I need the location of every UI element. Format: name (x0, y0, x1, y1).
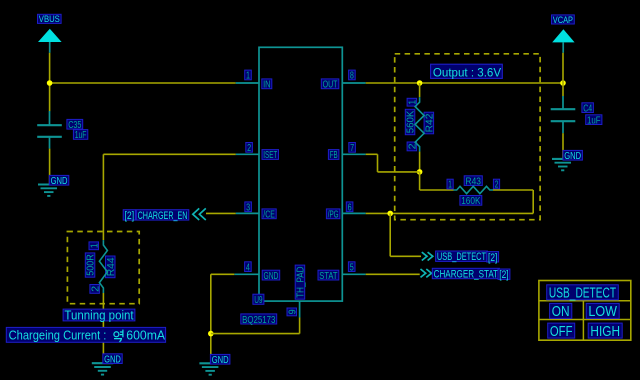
pin 2 stub (236, 153, 259, 155)
svg-text:9: 9 (287, 309, 298, 314)
R44 pin 2 label (vertical) (90, 285, 101, 294)
svg-text:7: 7 (350, 143, 354, 154)
pin 5 stub (342, 273, 365, 275)
ground symbol below R44 (92, 363, 113, 374)
table header USB_DETECT (547, 285, 619, 302)
svg-text:2: 2 (90, 285, 101, 291)
R43 pin 1 label (447, 179, 453, 191)
svg-text:500R: 500R (86, 254, 97, 276)
junction dot GND net (208, 331, 214, 337)
ground label GND (R44) (103, 354, 122, 366)
pin number 2 (246, 143, 253, 155)
net label CHARGER_STAT[2] (432, 268, 510, 281)
svg-text:HIGH: HIGH (590, 324, 620, 340)
table USB_DETECT frame (539, 281, 631, 341)
resistor R43 zigzag (454, 186, 494, 193)
pin number 6 (346, 202, 353, 214)
svg-text:/PG: /PG (328, 210, 339, 221)
svg-text:600mA: 600mA (126, 328, 165, 343)
svg-text:R44: R44 (106, 257, 117, 276)
pin 3 stub (236, 212, 259, 214)
svg-text:[2]: [2] (488, 252, 497, 264)
svg-text:GND: GND (264, 271, 279, 282)
svg-text:560K: 560K (406, 110, 417, 133)
svg-text:Chargeing Current :: Chargeing Current : (9, 328, 107, 343)
ground symbol below C4 (552, 159, 574, 170)
dashed annotation box (tuning) (67, 232, 139, 304)
svg-text:GND: GND (564, 151, 581, 162)
svg-text:8: 8 (350, 71, 354, 82)
label C35 value 1uF (73, 130, 87, 142)
note Output 3.6V (431, 64, 503, 79)
svg-text:[2]: [2] (499, 269, 508, 281)
wire R43 return to /PG (390, 212, 533, 214)
svg-text:1: 1 (89, 243, 100, 248)
wire OUT to VCAP (366, 82, 563, 84)
svg-text:2: 2 (247, 143, 251, 154)
svg-text:Output : 3.6V: Output : 3.6V (433, 65, 501, 79)
pin number 1 (245, 70, 252, 82)
ground label GND (pin4) (210, 354, 230, 366)
R42 value 560K (vertical) (405, 109, 416, 134)
IC U9 BQ25173 body outline (259, 47, 342, 301)
svg-text:IN: IN (263, 80, 270, 91)
note Tunning point (63, 308, 135, 323)
wire R43 down (532, 190, 534, 213)
resistor R42 zigzag (415, 97, 424, 151)
table cell LOW (586, 303, 619, 320)
svg-text:ISET: ISET (263, 150, 277, 161)
part number BQ25173 (241, 314, 277, 326)
power symbol VCAP triangle (552, 29, 574, 53)
wire VCAP vertical (562, 53, 564, 96)
svg-text:OUT: OUT (323, 80, 338, 91)
net label [2] CHARGER_EN (123, 210, 189, 222)
R42 pin 2 label (vertical) (407, 142, 418, 151)
R44 designator (vertical) (106, 256, 117, 278)
wire pin 4 GND horizontal (211, 273, 235, 275)
junction dot VBUS/IN (47, 80, 53, 86)
pin 8 stub (342, 82, 365, 84)
wire CHARGER_EN to pin 3 (206, 212, 236, 214)
label C4 value 1uF (586, 115, 602, 127)
power symbol VBUS label (38, 14, 62, 24)
ground symbol below C35 (38, 185, 60, 196)
pin name OUT (321, 79, 339, 91)
svg-text:USB_DETECT: USB_DETECT (549, 286, 616, 302)
net label USB_DETECT [2] (436, 251, 499, 264)
R43 pin 2 label (493, 179, 499, 191)
svg-text:5: 5 (350, 262, 354, 273)
wire C4 to ground (562, 133, 564, 159)
pin 7 stub (342, 153, 365, 155)
wire TH_PAD vertical (299, 318, 301, 334)
junction dot OUT/C4 (560, 80, 566, 86)
wire pin 4 GND vertical (210, 274, 212, 354)
label C35 (67, 119, 83, 130)
svg-text:3: 3 (246, 202, 250, 213)
svg-text:160K: 160K (461, 196, 481, 207)
svg-text:GND: GND (104, 354, 121, 365)
pin name /CE (262, 209, 276, 221)
designator U9 (253, 294, 264, 306)
svg-text:USB_DETECT: USB_DETECT (437, 251, 486, 263)
R42 pin 1 label (vertical) (407, 98, 418, 106)
svg-text:1: 1 (246, 71, 250, 82)
junction dot OUT/R42 (417, 80, 423, 86)
svg-text:[2]: [2] (125, 210, 135, 222)
svg-text:1uF: 1uF (587, 115, 601, 126)
wire STAT (366, 273, 420, 275)
table cell HIGH (588, 323, 622, 340)
svg-text:STAT: STAT (319, 271, 337, 282)
pin name STAT (318, 270, 339, 282)
pin number 4 (245, 262, 252, 274)
wire FB right (366, 153, 378, 155)
wire ISET horizontal (103, 153, 235, 155)
svg-text:CHARGER_EN: CHARGER_EN (138, 210, 188, 222)
wire TH_PAD horizontal (211, 333, 300, 335)
pin number 8 (349, 70, 356, 82)
svg-text:TH_PAD: TH_PAD (296, 267, 307, 298)
pin number 7 (349, 143, 356, 155)
chevron arrows CHARGER_STAT (421, 269, 432, 277)
svg-text:ON: ON (552, 304, 570, 320)
wire R42 to FB junction (419, 152, 421, 172)
note Chargeing Current box (6, 327, 165, 342)
svg-text:C4: C4 (583, 103, 592, 114)
wire R42 bottom down (419, 172, 421, 190)
capacitor C4 (551, 96, 576, 133)
svg-text:1uF: 1uF (75, 130, 87, 141)
power symbol VBUS triangle (38, 29, 62, 53)
wire OUT to R42 (419, 83, 421, 97)
junction dot /PG (387, 211, 393, 217)
R42 designator (vertical) (424, 112, 435, 134)
power symbol VCAP label (552, 15, 575, 25)
wire R43 right (493, 189, 533, 191)
pin 9 stub (TH_PAD) (299, 301, 301, 317)
svg-text:R42: R42 (425, 113, 436, 132)
pin number 9 (vertical) (287, 308, 298, 316)
svg-text:GND: GND (212, 355, 229, 366)
chevron arrows CHARGER_EN (193, 208, 206, 220)
wire to R43 (420, 189, 454, 191)
wire VBUS vertical to C35 (49, 53, 51, 111)
wire ISET vertical to R44 (102, 154, 104, 240)
ground label GND (C4) (563, 150, 582, 162)
wire /PG down (389, 213, 391, 256)
wire /PG from pin 6 (366, 212, 391, 214)
svg-text:2: 2 (495, 180, 499, 191)
wire VBUS to pin 1 IN (50, 82, 236, 84)
svg-text:Tunning point: Tunning point (64, 308, 134, 323)
table cell OFF (548, 323, 575, 340)
svg-text:6: 6 (348, 202, 352, 213)
svg-text:1: 1 (448, 180, 452, 191)
table cell ON (550, 303, 572, 320)
pin name FB (328, 150, 339, 162)
R44 pin 1 label (vertical) (89, 242, 100, 250)
pin 1 stub (236, 82, 259, 84)
pin 6 stub (342, 212, 365, 214)
svg-text:CHARGER_STAT: CHARGER_STAT (434, 269, 499, 281)
resistor R44 zigzag (99, 240, 107, 293)
wire R44 to ground (102, 293, 104, 355)
svg-text:VCAP: VCAP (553, 15, 573, 25)
chevron arrows USB_DETECT (422, 252, 433, 260)
svg-text:4: 4 (246, 262, 250, 273)
label C4 (582, 103, 594, 115)
svg-text:/CE: /CE (263, 210, 275, 221)
svg-text:OFF: OFF (550, 324, 573, 340)
svg-text:FB: FB (330, 150, 338, 161)
wire /PG to USB_DETECT (390, 255, 421, 257)
svg-text:U9: U9 (254, 294, 262, 306)
capacitor C35 (37, 111, 62, 149)
R44 value 500R (vertical) (85, 253, 96, 277)
pin name GND (262, 270, 280, 282)
svg-text:LOW: LOW (588, 304, 617, 320)
ground symbol below pin 4 (199, 363, 221, 374)
pin 4 stub (234, 273, 259, 275)
wire FB to junction (378, 171, 420, 173)
pin name TH_PAD (vertical) (295, 265, 306, 299)
pin number 3 (245, 202, 252, 214)
wire C35 to ground (49, 149, 51, 185)
wire FB down (377, 154, 379, 172)
junction dot FB/R42 (417, 169, 423, 175)
pin name /PG (326, 209, 340, 221)
svg-text:BQ25173: BQ25173 (242, 314, 275, 326)
dashed annotation box (output) (395, 54, 540, 220)
ground label GND (C35) (49, 175, 69, 187)
R43 designator (464, 176, 482, 188)
svg-text:VBUS: VBUS (39, 14, 60, 24)
R43 value 160K (460, 196, 482, 208)
pin name ISET (262, 150, 279, 162)
pin name IN (262, 79, 272, 91)
svg-text:GND: GND (51, 176, 68, 187)
pin number 5 (348, 262, 355, 274)
